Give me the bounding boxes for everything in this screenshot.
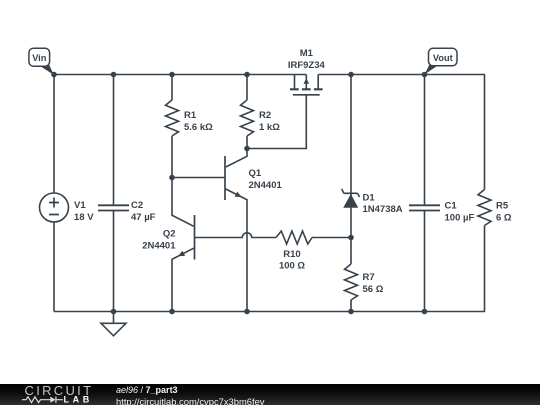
svg-text:C2: C2	[131, 200, 143, 211]
svg-text:56 Ω: 56 Ω	[363, 284, 384, 295]
svg-text:V1: V1	[74, 200, 86, 211]
svg-text:M1: M1	[300, 48, 314, 59]
svg-text:2N4401: 2N4401	[249, 180, 283, 191]
svg-text:1N4738A: 1N4738A	[363, 204, 403, 215]
svg-text:47 µF: 47 µF	[131, 212, 156, 223]
svg-text:IRF9Z34: IRF9Z34	[288, 60, 326, 71]
svg-text:Vin: Vin	[32, 53, 47, 63]
svg-text:C1: C1	[445, 201, 458, 212]
svg-text:R1: R1	[184, 110, 197, 121]
svg-text:18 V: 18 V	[74, 212, 94, 223]
svg-text:1 kΩ: 1 kΩ	[259, 122, 280, 133]
svg-text:Q2: Q2	[163, 229, 176, 240]
svg-text:R5: R5	[496, 201, 509, 212]
svg-text:5.6 kΩ: 5.6 kΩ	[184, 122, 213, 133]
svg-text:100 Ω: 100 Ω	[279, 260, 305, 271]
svg-text:R10: R10	[283, 249, 300, 260]
svg-text:Q1: Q1	[249, 168, 262, 179]
svg-text:100 µF: 100 µF	[445, 212, 475, 223]
svg-text:R2: R2	[259, 110, 271, 121]
svg-text:R7: R7	[363, 272, 375, 283]
svg-text:6 Ω: 6 Ω	[496, 212, 512, 223]
svg-text:D1: D1	[363, 193, 376, 204]
svg-text:2N4401: 2N4401	[142, 240, 176, 251]
svg-text:LAB: LAB	[64, 395, 93, 405]
svg-text:Vout: Vout	[433, 53, 453, 63]
